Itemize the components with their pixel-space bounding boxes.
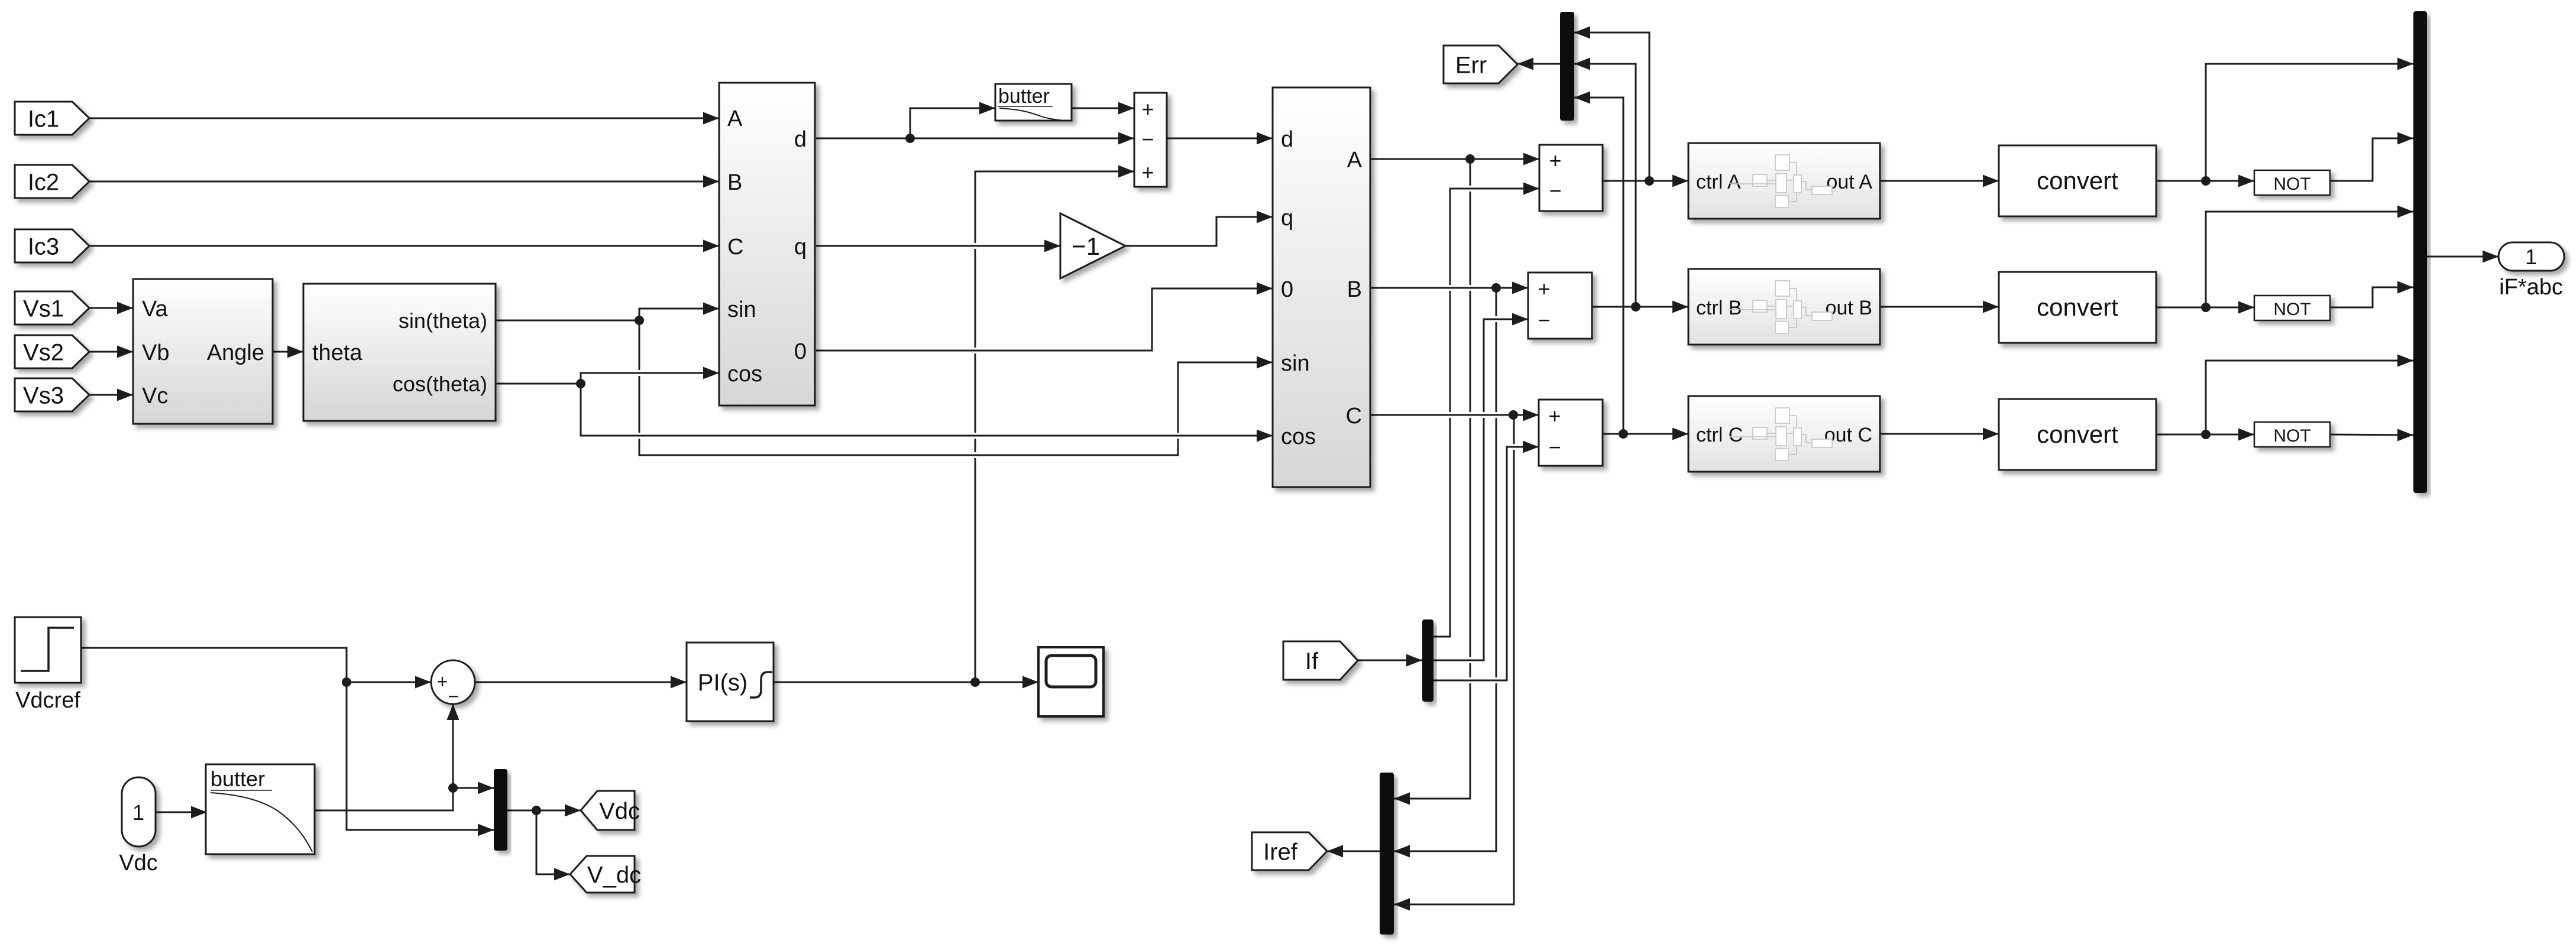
wire Ic3 to C	[89, 240, 719, 252]
wire A to sum A plus	[1370, 153, 1539, 166]
sum block S1 (+-+)	[1134, 93, 1167, 187]
wire B to sum B plus	[1370, 282, 1528, 294]
svg-text:d: d	[794, 127, 807, 152]
svg-text:Vs1: Vs1	[23, 296, 64, 322]
wire d to sum1 minus	[816, 132, 1134, 145]
from tag If	[1283, 641, 1358, 680]
input tag Vs2	[15, 335, 89, 368]
wire branch to sum2 plus	[342, 676, 431, 689]
wire sum B to ctrl B	[1592, 301, 1688, 313]
demux If	[1422, 619, 1433, 702]
wire q to gain	[816, 240, 1060, 252]
wire NOT A to mux in2	[2330, 132, 2413, 181]
wire butter2 up to sum2 minus	[315, 704, 459, 810]
input tag Ic2	[15, 165, 89, 198]
wire butter to sum1 plus	[1072, 102, 1134, 115]
wire Ic2 to B	[89, 176, 719, 188]
wire Ic1 to A	[89, 112, 719, 125]
svg-text:NOT: NOT	[2273, 300, 2310, 319]
svg-text:PI(s): PI(s)	[698, 670, 747, 696]
input tag Vs3	[15, 378, 89, 411]
wire d branch to butter	[905, 102, 995, 144]
wire err B riser to Err mux	[1574, 58, 1636, 307]
wire Vdc inport to butter2	[156, 806, 207, 819]
wire convert B to NOT B	[2156, 301, 2254, 314]
svg-text:A: A	[1347, 148, 1363, 173]
svg-text:sin: sin	[1281, 351, 1310, 376]
svg-text:−1: −1	[1072, 232, 1100, 260]
wire NOT B to mux in4	[2330, 281, 2413, 308]
step source Vdcref	[15, 617, 81, 713]
svg-text:0: 0	[1281, 277, 1293, 302]
block dq0 to abc	[1273, 87, 1370, 487]
svg-text:+: +	[1538, 277, 1550, 301]
sum block C	[1539, 400, 1603, 466]
logic block NOT A	[2254, 170, 2330, 195]
svg-text:sin(theta): sin(theta)	[399, 309, 487, 333]
wire Vs2 to Vb	[89, 346, 133, 358]
wire err A riser to Err mux	[1574, 27, 1649, 181]
svg-text:cos: cos	[1281, 424, 1316, 449]
mux Iref	[1380, 773, 1394, 935]
wire C to sum C plus	[1370, 409, 1539, 421]
svg-text:−: −	[448, 686, 459, 707]
subsystem ctrl C	[1688, 396, 1880, 472]
wire A-phase drop to Iref mux	[1394, 159, 1470, 805]
wire PI output riser to sum1 plus	[975, 166, 1134, 683]
block convert C	[1999, 399, 2156, 470]
block convert A	[1999, 145, 2156, 216]
block butter filter bottom	[206, 764, 315, 854]
gain -1	[1060, 213, 1125, 278]
svg-text:cos(theta): cos(theta)	[393, 372, 487, 396]
svg-text:d: d	[1281, 127, 1293, 152]
svg-text:NOT: NOT	[2273, 174, 2310, 194]
wire sum2 to PI	[475, 676, 687, 689]
svg-text:Iref: Iref	[1263, 839, 1298, 865]
wire Vs3 to Vc	[89, 389, 133, 401]
wire If demux out1 to sum A minus	[1433, 183, 1539, 637]
block theta (sin/cos)	[303, 284, 496, 421]
svg-text:0: 0	[794, 339, 807, 364]
wire 0 to dq02abc 0	[816, 283, 1273, 351]
wire If demux out3 to sum C minus	[1433, 441, 1539, 681]
block abc to dq0	[719, 83, 815, 406]
svg-text:+: +	[437, 671, 448, 692]
goto tag V_dc	[570, 856, 641, 893]
svg-text:1: 1	[132, 800, 144, 825]
wire If demux out2 to sum B minus	[1433, 313, 1528, 661]
svg-text:ctrl A: ctrl A	[1696, 171, 1741, 193]
mux Vdc	[494, 769, 507, 851]
block Angle	[133, 279, 273, 424]
svg-text:1: 1	[2525, 245, 2537, 269]
svg-text:+: +	[1141, 97, 1154, 121]
svg-text:−: −	[1141, 127, 1154, 151]
svg-text:iF*abc: iF*abc	[2499, 275, 2563, 300]
wire convert A branch to mux in1	[2201, 58, 2413, 186]
svg-text:Vs3: Vs3	[23, 382, 64, 408]
svg-text:If: If	[1305, 648, 1319, 674]
svg-text:−: −	[1549, 179, 1561, 203]
wire Vdc mux out	[507, 804, 581, 817]
svg-text:Vdcref: Vdcref	[15, 688, 80, 713]
svg-text:ctrl B: ctrl B	[1696, 297, 1742, 319]
svg-text:−: −	[1538, 308, 1550, 332]
inport 1 Vdc	[119, 777, 157, 875]
wire convert B branch to mux in3	[2201, 206, 2413, 313]
mux to Err	[1560, 12, 1574, 121]
wire sum C to ctrl C	[1603, 428, 1688, 440]
svg-text:butter: butter	[211, 767, 265, 791]
svg-text:B: B	[727, 170, 742, 195]
subsystem ctrl B	[1688, 269, 1880, 345]
input tag Ic1	[15, 102, 89, 135]
svg-text:q: q	[794, 235, 807, 259]
wire branch to V_dc tag	[536, 810, 570, 881]
wire convert C branch to mux in5	[2201, 355, 2413, 440]
svg-text:Vc: Vc	[142, 384, 168, 408]
svg-text:A: A	[727, 106, 743, 131]
wire branch to Vdc mux in1	[448, 782, 494, 794]
sum junction S2 (+-)	[431, 660, 475, 707]
svg-text:butter: butter	[998, 85, 1050, 108]
svg-text:−: −	[1548, 435, 1561, 459]
logic block NOT B	[2254, 296, 2330, 320]
svg-text:cos: cos	[727, 362, 762, 387]
scope	[1038, 647, 1103, 716]
wire sum1 to dq02abc d	[1167, 132, 1273, 145]
wire sin(theta) to abc2dq0 sin	[496, 303, 719, 321]
block butter filter top	[995, 84, 1072, 121]
goto tag Vdc	[581, 791, 640, 830]
wire C-phase drop to Iref mux	[1394, 414, 1514, 911]
wire cos branch to dq02abc cos	[576, 379, 1273, 442]
wire convert C to NOT C	[2156, 429, 2254, 441]
wire mux to outport	[2427, 251, 2499, 263]
wire sum A to ctrl A	[1603, 175, 1688, 187]
wire Err mux to Err tag	[1517, 58, 1560, 70]
logic block NOT C	[2254, 422, 2330, 447]
svg-text:V_dc: V_dc	[587, 862, 641, 888]
wire PI to scope	[774, 676, 1038, 689]
wire ctrl B to convert B	[1880, 301, 1999, 313]
svg-text:Va: Va	[142, 297, 169, 322]
outport 1 iF*abc	[2499, 242, 2564, 300]
svg-text:Vdc: Vdc	[599, 798, 640, 824]
wire gain to dq02abc q	[1125, 211, 1273, 246]
block convert B	[1999, 272, 2156, 343]
wire Vdcref to sum2 and Vdc mux	[80, 648, 494, 836]
svg-text:Vs2: Vs2	[23, 339, 64, 365]
svg-text:convert: convert	[2037, 293, 2118, 321]
svg-text:Ic2: Ic2	[28, 169, 59, 195]
svg-text:B: B	[1347, 277, 1362, 302]
svg-text:ctrl C: ctrl C	[1696, 424, 1743, 446]
svg-text:+: +	[1548, 404, 1561, 428]
wire NOT C to mux in6	[2330, 429, 2413, 442]
svg-text:Err: Err	[1455, 52, 1487, 78]
subsystem ctrl A	[1688, 143, 1880, 219]
sum block A	[1539, 145, 1603, 211]
wire convert A to NOT A	[2156, 175, 2254, 187]
wire If tag to demux	[1358, 654, 1422, 667]
wire sin branch to dq02abc sin	[635, 316, 1273, 455]
svg-text:C: C	[1346, 404, 1362, 429]
input tag Ic3	[15, 229, 89, 262]
svg-text:Ic3: Ic3	[28, 233, 59, 259]
svg-text:theta: theta	[312, 340, 363, 365]
svg-text:sin: sin	[727, 297, 756, 322]
wire Iref mux to Iref tag	[1327, 845, 1380, 858]
svg-text:convert: convert	[2037, 420, 2118, 448]
svg-text:NOT: NOT	[2273, 426, 2310, 446]
svg-text:+: +	[1141, 160, 1154, 184]
svg-text:C: C	[727, 235, 743, 259]
goto tag Iref	[1252, 832, 1327, 870]
wire B-phase drop to Iref mux	[1394, 288, 1496, 858]
wire Angle to theta	[273, 346, 303, 358]
goto tag Err	[1444, 46, 1517, 83]
wire err C riser to Err mux	[1574, 92, 1623, 434]
svg-text:out A: out A	[1826, 171, 1872, 193]
wire ctrl A to convert A	[1880, 175, 1999, 187]
svg-text:Ic1: Ic1	[28, 106, 59, 132]
svg-text:Vdc: Vdc	[119, 851, 157, 875]
wire cos(theta) to abc2dq0 cos	[496, 367, 719, 384]
wire ctrl C to convert C	[1880, 428, 1999, 440]
wire Vs1 to Va	[89, 302, 133, 314]
sum block B	[1528, 273, 1592, 339]
svg-text:Angle: Angle	[207, 340, 264, 365]
input tag Vs1	[15, 291, 89, 325]
output mux bar	[2413, 11, 2427, 493]
svg-text:+: +	[1549, 148, 1561, 173]
svg-text:Vb: Vb	[142, 340, 169, 365]
controller PI(s)	[687, 643, 774, 721]
svg-text:q: q	[1281, 206, 1293, 231]
svg-text:convert: convert	[2037, 167, 2118, 194]
